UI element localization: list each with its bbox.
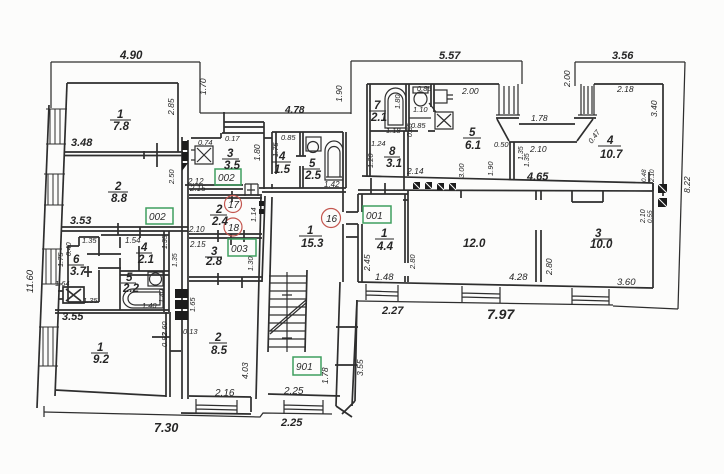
svg-text:2: 2 [215,204,223,216]
svg-text:1.5: 1.5 [274,164,291,176]
svg-text:3.5: 3.5 [224,160,241,172]
svg-text:901: 901 [296,362,313,373]
svg-text:1.35: 1.35 [524,153,531,167]
svg-text:7.8: 7.8 [113,121,130,133]
svg-text:1.30: 1.30 [246,256,255,271]
svg-text:5.57: 5.57 [439,50,461,62]
svg-text:1.40: 1.40 [142,301,157,310]
svg-text:3.48: 3.48 [71,137,93,149]
svg-text:3.53: 3.53 [70,215,91,227]
svg-text:2.15: 2.15 [189,240,206,249]
svg-text:2.00: 2.00 [461,86,479,96]
svg-text:3.7: 3.7 [70,266,87,278]
svg-text:4: 4 [140,242,148,254]
svg-text:0.17: 0.17 [225,134,240,143]
svg-text:0.40: 0.40 [66,242,73,256]
svg-text:3.56: 3.56 [612,50,634,62]
svg-text:0.74: 0.74 [198,138,213,147]
svg-text:2.8: 2.8 [205,256,223,268]
svg-text:1.40: 1.40 [159,289,166,303]
svg-text:1.80: 1.80 [393,94,402,109]
svg-text:1.20: 1.20 [366,153,375,168]
svg-text:2.80: 2.80 [544,258,554,276]
svg-text:0.13: 0.13 [183,327,198,336]
svg-text:1: 1 [307,225,313,237]
svg-text:10.0: 10.0 [590,239,613,251]
svg-text:3: 3 [227,148,234,160]
svg-text:1.24: 1.24 [371,139,386,148]
svg-text:2.85: 2.85 [166,98,176,116]
svg-text:3.00: 3.00 [457,163,466,178]
svg-text:11.60: 11.60 [25,269,36,293]
svg-text:0.85: 0.85 [417,84,432,93]
svg-text:2.4: 2.4 [211,216,229,228]
svg-text:4.03: 4.03 [240,362,250,379]
svg-text:2: 2 [114,181,122,193]
svg-text:2.10: 2.10 [640,209,647,224]
svg-text:6: 6 [73,254,80,266]
svg-text:7.30: 7.30 [154,421,178,435]
svg-text:6.1: 6.1 [465,140,481,152]
svg-text:4: 4 [606,135,614,147]
svg-text:1.75: 1.75 [271,142,280,157]
svg-text:0.92: 0.92 [160,332,169,347]
svg-text:18: 18 [228,223,240,234]
svg-text:2.25: 2.25 [280,417,303,429]
svg-text:2.1: 2.1 [370,112,387,124]
svg-text:2.10: 2.10 [188,225,205,234]
svg-text:1: 1 [381,228,387,240]
svg-text:002: 002 [218,173,235,184]
svg-text:9.2: 9.2 [93,354,110,366]
svg-text:1.35: 1.35 [172,253,179,267]
svg-text:5: 5 [309,158,316,170]
svg-text:8.5: 8.5 [211,345,228,357]
svg-text:4.4: 4.4 [376,241,394,253]
svg-text:4.90: 4.90 [119,50,143,62]
svg-text:7: 7 [374,100,381,112]
svg-text:1.70: 1.70 [198,78,208,95]
svg-text:002: 002 [149,212,166,223]
svg-text:2.10: 2.10 [529,144,547,154]
svg-text:1.42: 1.42 [324,180,340,189]
svg-text:1.14: 1.14 [249,207,258,222]
svg-text:2.14: 2.14 [406,166,424,176]
svg-text:1.35: 1.35 [83,296,98,305]
svg-text:1.78: 1.78 [531,113,548,123]
svg-text:1.54: 1.54 [125,236,141,245]
svg-text:2.5: 2.5 [304,170,322,182]
svg-text:2.45: 2.45 [362,254,372,272]
svg-text:0.48: 0.48 [641,169,648,182]
svg-text:3.55: 3.55 [62,311,84,323]
svg-text:4.28: 4.28 [509,272,528,283]
svg-text:1: 1 [97,342,103,354]
svg-text:001: 001 [366,211,383,222]
svg-text:1.10: 1.10 [413,105,428,114]
svg-text:1.90: 1.90 [486,161,495,176]
svg-text:2.18: 2.18 [616,84,634,94]
svg-text:0.47: 0.47 [586,127,602,145]
svg-text:3.40: 3.40 [649,100,659,117]
svg-text:2.1: 2.1 [137,254,154,266]
svg-text:1.80: 1.80 [252,144,262,161]
svg-text:1.35: 1.35 [82,236,97,245]
svg-text:3.1: 3.1 [386,158,402,170]
svg-text:1.65: 1.65 [188,297,197,312]
svg-text:1.48: 1.48 [375,272,394,283]
svg-text:8.8: 8.8 [111,193,128,205]
svg-text:0.50: 0.50 [494,140,509,149]
svg-text:1.90: 1.90 [334,85,344,102]
svg-text:7.97: 7.97 [487,306,515,322]
svg-text:3.55: 3.55 [355,359,365,376]
svg-text:2.25: 2.25 [283,386,304,397]
svg-text:1.64: 1.64 [55,279,70,288]
svg-text:3.60: 3.60 [617,277,636,288]
svg-text:8: 8 [389,146,396,158]
svg-text:17: 17 [228,200,240,211]
svg-text:2.80: 2.80 [408,254,417,270]
svg-text:2: 2 [214,332,222,344]
svg-text:2.16: 2.16 [214,388,235,399]
svg-text:2.10: 2.10 [649,169,656,183]
svg-text:10.7: 10.7 [600,149,623,161]
svg-text:2.2: 2.2 [122,283,140,295]
svg-text:15.3: 15.3 [301,238,324,250]
svg-text:1.78: 1.78 [320,367,330,384]
svg-text:2.27: 2.27 [381,305,404,317]
svg-text:16: 16 [326,214,338,225]
svg-text:003: 003 [231,244,248,255]
svg-text:2.15: 2.15 [189,184,206,193]
svg-text:12.0: 12.0 [463,238,486,250]
svg-text:0.85: 0.85 [281,133,296,142]
svg-text:2.00: 2.00 [562,70,572,88]
svg-text:4.65: 4.65 [526,171,549,183]
svg-text:8.22: 8.22 [682,176,692,193]
svg-text:1: 1 [117,109,123,121]
svg-text:1.35: 1.35 [162,235,169,249]
svg-text:0.65: 0.65 [407,123,414,137]
svg-text:5: 5 [469,127,476,139]
svg-text:4.78: 4.78 [284,105,305,116]
svg-text:1.75: 1.75 [56,252,65,267]
svg-text:0.55: 0.55 [647,210,654,223]
svg-text:2.50: 2.50 [167,169,176,185]
svg-text:1.18: 1.18 [386,126,401,135]
